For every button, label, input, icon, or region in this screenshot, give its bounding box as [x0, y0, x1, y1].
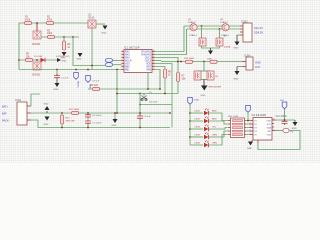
svg-text:2: 2 — [122, 53, 123, 55]
ground — [236, 67, 238, 72]
svg-text:RA3: RA3 — [125, 53, 130, 56]
wire — [96, 23, 105, 25]
pin stubs right — [152, 52, 155, 70]
wire — [36, 23, 38, 31]
svg-text:18: 18 — [153, 50, 155, 52]
svg-text:BAT-: BAT- — [2, 112, 8, 115]
svg-text:470k: 470k — [25, 19, 31, 21]
svg-text:17: 17 — [153, 53, 155, 55]
svg-text:C6 100nF: C6 100nF — [92, 115, 102, 117]
node junction — [116, 93, 118, 95]
wire — [155, 58, 179, 73]
transistor Q3 — [190, 24, 197, 31]
node junction — [139, 127, 141, 129]
ground — [210, 48, 212, 51]
node junction — [87, 127, 89, 129]
svg-text:GND: GND — [207, 59, 212, 61]
wire loop — [258, 131, 300, 150]
svg-text:OSC2: OSC2 — [145, 60, 152, 62]
svg-text:OUT: OUT — [255, 66, 261, 69]
svg-text:BAT+: BAT+ — [2, 105, 9, 108]
wire — [155, 29, 187, 55]
svg-text:GND: GND — [112, 125, 117, 127]
net label flag — [105, 63, 113, 67]
svg-text:IC2 24LC01B: IC2 24LC01B — [252, 114, 267, 117]
wire — [177, 82, 179, 94]
background grid — [0, 0, 320, 163]
pin labels left — [125, 50, 132, 71]
resistor R13 — [186, 60, 193, 63]
wire — [198, 79, 211, 81]
node junction — [56, 69, 58, 71]
svg-text:GRN: GRN — [212, 135, 217, 137]
svg-text:RB0: RB0 — [125, 66, 130, 68]
wire — [219, 29, 221, 38]
transistor pair Q5 — [194, 71, 201, 80]
svg-text:R6 1k5: R6 1k5 — [91, 85, 99, 87]
svg-text:6: 6 — [273, 129, 274, 131]
net port PACK+ — [74, 73, 79, 80]
transistor Q6 — [222, 24, 229, 31]
node junction — [201, 25, 203, 27]
svg-text:GND: GND — [77, 59, 82, 61]
op IC1 body — [124, 50, 152, 73]
svg-text:DTA114: DTA114 — [189, 34, 197, 37]
svg-text:CON1: CON1 — [15, 100, 22, 102]
svg-text:14: 14 — [153, 62, 155, 64]
wire — [155, 64, 173, 128]
svg-text:4.0THR(5.4V): 4.0THR(5.4V) — [56, 56, 70, 58]
node junction — [61, 127, 63, 129]
svg-text:GND: GND — [255, 62, 261, 65]
svg-text:GND: GND — [62, 60, 67, 62]
ground stub — [114, 113, 116, 119]
svg-text:R12 390R: R12 390R — [69, 109, 79, 111]
node junction — [18, 59, 20, 61]
wire — [116, 70, 118, 114]
wire — [63, 37, 65, 41]
node junction — [159, 88, 161, 90]
net port VBAT — [86, 76, 91, 83]
svg-text:2N7002: 2N7002 — [32, 44, 41, 46]
IC2 pin numbers — [250, 119, 275, 136]
node junction — [91, 65, 93, 67]
node junction — [87, 112, 89, 114]
node junction — [87, 69, 89, 71]
wire — [91, 28, 93, 70]
svg-text:1: 1 — [122, 50, 123, 52]
svg-text:GRN: GRN — [212, 143, 217, 145]
ground — [103, 26, 108, 30]
node junction — [116, 112, 118, 114]
wire rail mid — [161, 61, 242, 63]
svg-text:GND: GND — [292, 128, 297, 130]
resistor R5 — [26, 58, 33, 61]
resistor R9 — [163, 69, 166, 78]
node junction — [116, 88, 118, 90]
wire — [202, 46, 220, 48]
resistor R6 — [93, 87, 100, 90]
net port flag1 — [246, 106, 251, 113]
svg-text:GND: GND — [247, 148, 252, 150]
wire — [19, 59, 57, 61]
node junction — [169, 112, 171, 114]
testpoint P1 — [276, 130, 284, 132]
svg-text:3: 3 — [250, 126, 251, 128]
svg-text:1: 1 — [250, 119, 251, 121]
resistor R2 — [47, 21, 54, 24]
wire OSC stub — [147, 73, 149, 90]
svg-text:RB6: RB6 — [147, 69, 152, 71]
svg-text:13: 13 — [153, 65, 155, 67]
resistor R3 — [48, 35, 55, 38]
resistor R1 — [25, 21, 32, 24]
resistor R12 — [72, 111, 79, 114]
svg-text:7: 7 — [122, 68, 123, 70]
wire rail1 — [184, 25, 240, 27]
ground — [294, 120, 296, 122]
svg-text:LED4: LED4 — [195, 135, 201, 137]
wire — [19, 23, 88, 70]
svg-text:PACK-: PACK- — [2, 119, 10, 122]
svg-text:IC1 16C711/P: IC1 16C711/P — [124, 47, 140, 50]
node junction — [180, 61, 182, 63]
svg-text:2: 2 — [250, 123, 251, 125]
net arrow flag — [57, 58, 61, 62]
node junction — [63, 36, 65, 38]
LED D6 — [190, 144, 203, 146]
svg-text:GND: GND — [234, 79, 239, 81]
wire — [201, 26, 203, 38]
pin stubs left — [122, 52, 125, 70]
svg-text:LED5: LED5 — [195, 143, 201, 145]
wire — [155, 26, 185, 52]
transistor Q2 — [33, 62, 41, 70]
wire — [140, 104, 172, 106]
svg-text:SCL 5V: SCL 5V — [254, 26, 263, 30]
capacitor C6 — [87, 113, 89, 115]
wire — [117, 93, 178, 95]
svg-text:4: 4 — [250, 130, 251, 132]
wire — [88, 88, 160, 90]
resistor R10 — [61, 113, 63, 115]
svg-text:IRF7205PBF: IRF7205PBF — [209, 87, 222, 89]
connector J3 — [246, 57, 253, 70]
wire — [155, 67, 166, 94]
svg-text:470k: 470k — [47, 19, 53, 21]
net label flag — [105, 58, 113, 62]
node junction — [139, 93, 141, 95]
connector J2 — [243, 23, 252, 42]
svg-text:VDD: VDD — [146, 63, 151, 65]
resistor network RN1 — [231, 118, 245, 138]
transistor pair Q4 — [199, 38, 206, 46]
node junction — [61, 112, 63, 114]
wires pack to IC2 — [246, 121, 250, 135]
svg-text:RA1/AN1: RA1/AN1 — [141, 50, 151, 53]
capacitor C10 — [284, 120, 286, 121]
wire — [155, 60, 162, 62]
svg-text:6: 6 — [122, 65, 123, 67]
svg-text:VSS: VSS — [125, 63, 130, 65]
svg-text:OSC1: OSC1 — [145, 57, 152, 59]
svg-text:GND: GND — [234, 48, 239, 50]
svg-text:10: 10 — [273, 119, 275, 121]
node junction — [72, 36, 74, 38]
svg-text:C8 10uF: C8 10uF — [149, 102, 158, 104]
wire — [31, 94, 40, 106]
svg-text:LED1: LED1 — [195, 111, 201, 113]
svg-text:RB1: RB1 — [125, 69, 130, 71]
svg-text:4403A: 4403A — [224, 46, 231, 49]
pin labels right — [141, 50, 151, 71]
wire row y113 — [31, 112, 170, 114]
node junction — [116, 69, 118, 71]
svg-text:5: 5 — [122, 62, 123, 64]
capacitor C9 — [139, 94, 141, 116]
svg-text:5: 5 — [250, 133, 251, 135]
svg-text:PACK+: PACK+ — [77, 81, 80, 89]
wire — [276, 119, 296, 121]
svg-text:CON4: CON4 — [244, 55, 251, 57]
node junction — [36, 22, 38, 24]
ground up flag — [46, 111, 48, 113]
node junction — [177, 61, 179, 63]
LED D4 — [189, 128, 191, 130]
svg-text:RA4: RA4 — [125, 56, 130, 59]
svg-text:LED3: LED3 — [195, 127, 201, 129]
svg-text:C9 1uF: C9 1uF — [144, 116, 152, 118]
crystal X1 — [143, 94, 145, 96]
svg-text:GND: GND — [44, 104, 49, 106]
node junction — [164, 93, 166, 95]
wire — [198, 70, 211, 72]
capacitor C7 — [85, 120, 91, 125]
pin numbers — [122, 50, 155, 70]
svg-text:D1 4148: D1 4148 — [34, 56, 43, 58]
svg-text:RA2: RA2 — [125, 50, 130, 53]
ground — [78, 53, 83, 57]
ground — [236, 35, 238, 42]
wire — [189, 104, 191, 145]
node junction — [203, 61, 205, 63]
ground — [203, 80, 205, 86]
svg-text:100k: 100k — [47, 33, 53, 35]
svg-text:GND: GND — [201, 95, 206, 97]
resistor R7 — [176, 73, 179, 82]
resistor R4 — [62, 41, 65, 50]
capacitor C1 — [56, 70, 58, 76]
svg-text:SDA: SDA — [267, 126, 272, 129]
svg-text:VDD: VDD — [266, 120, 271, 122]
svg-text:16: 16 — [153, 56, 155, 58]
svg-text:WP: WP — [267, 131, 271, 133]
svg-text:MCLR: MCLR — [125, 60, 132, 62]
svg-text:0R47 4W: 0R47 4W — [66, 121, 76, 123]
svg-text:2N7002: 2N7002 — [32, 75, 41, 77]
svg-text:VLED: VLED — [194, 100, 200, 102]
wire — [19, 69, 122, 71]
ground down flag — [45, 117, 50, 121]
svg-text:GND: GND — [44, 124, 49, 126]
svg-text:GND: GND — [54, 89, 59, 91]
svg-text:RED: RED — [212, 119, 217, 121]
svg-text:RN1 220R: RN1 220R — [228, 116, 239, 118]
wire — [203, 62, 205, 72]
node junction — [139, 104, 141, 106]
svg-text:3: 3 — [122, 56, 123, 58]
wire — [155, 70, 161, 90]
wire — [237, 34, 240, 36]
svg-text:CON2: CON2 — [241, 21, 248, 23]
ground — [62, 52, 67, 56]
wire — [73, 37, 105, 66]
ground — [56, 79, 58, 83]
wire — [41, 36, 79, 38]
svg-text:15: 15 — [153, 59, 155, 61]
diode D1 — [41, 58, 46, 62]
svg-text:C3 1uF: C3 1uF — [92, 81, 100, 83]
svg-text:12: 12 — [153, 68, 155, 70]
connector CON1 — [17, 102, 27, 125]
LED D2 — [189, 112, 191, 114]
svg-text:R13 100R: R13 100R — [184, 58, 194, 60]
svg-text:DTA114: DTA114 — [220, 21, 228, 24]
svg-text:DTA114: DTA114 — [188, 21, 196, 24]
svg-text:SDA 5V: SDA 5V — [254, 31, 263, 35]
regulator U2 — [88, 20, 96, 28]
node junction — [36, 59, 38, 61]
svg-text:C1 1uF: C1 1uF — [61, 78, 69, 80]
svg-text:LED2: LED2 — [195, 119, 201, 121]
svg-text:RB7: RB7 — [147, 66, 152, 68]
svg-text:C10 100nF: C10 100nF — [276, 116, 288, 118]
svg-text:C7 100nF: C7 100nF — [92, 122, 102, 124]
resistor R14 — [210, 60, 217, 63]
svg-text:78L05: 78L05 — [88, 18, 95, 20]
svg-text:GND: GND — [102, 33, 107, 35]
transistor Q1 — [33, 31, 41, 39]
wire rail2 — [187, 28, 241, 30]
ground — [248, 142, 253, 146]
wire row y127.5 — [31, 120, 170, 128]
svg-text:4: 4 — [122, 59, 123, 61]
LED D3 — [189, 120, 191, 122]
svg-text:RA0/AN0: RA0/AN0 — [141, 53, 151, 56]
node junction — [219, 28, 221, 30]
node junction — [75, 69, 77, 71]
svg-text:RED: RED — [212, 111, 217, 113]
LED D5 — [189, 136, 191, 138]
wire — [237, 66, 242, 68]
net port VLED — [188, 98, 193, 105]
svg-text:VSS: VSS — [267, 134, 272, 136]
IC2 body — [253, 118, 272, 141]
node junction — [147, 88, 149, 90]
